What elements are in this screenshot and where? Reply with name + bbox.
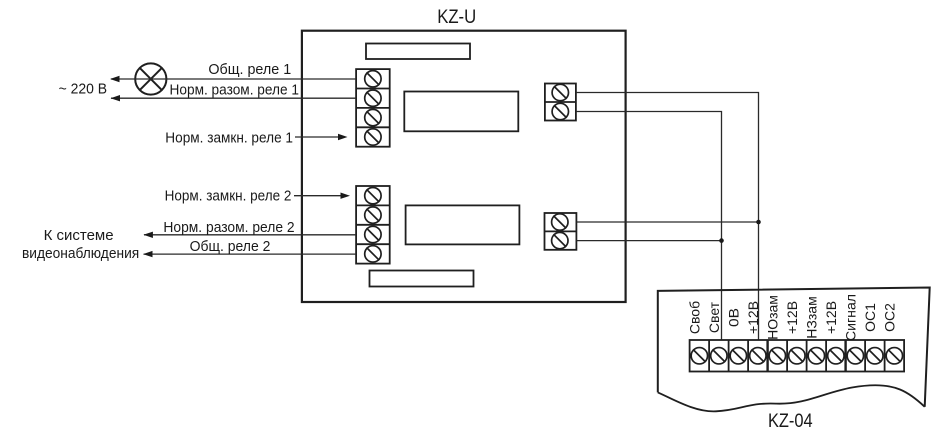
svg-text:Свет: Свет <box>706 301 722 333</box>
svg-text:К системе: К системе <box>44 227 114 244</box>
svg-text:Сигнал: Сигнал <box>842 294 858 341</box>
svg-text:Норм. разом. реле 2: Норм. разом. реле 2 <box>163 219 294 236</box>
svg-text:Норм. замкн. реле 1: Норм. замкн. реле 1 <box>165 130 293 147</box>
junction node A <box>756 220 761 225</box>
svg-text:Своб: Своб <box>686 301 702 334</box>
terminal block XT2 (relay 2 contacts, 4 screws) <box>356 186 390 264</box>
svg-text:KZ-04: KZ-04 <box>768 411 813 432</box>
wire: XT4 pin 1 to node A <box>576 221 758 223</box>
relay K2 <box>406 205 520 244</box>
svg-text:+12В: +12В <box>823 301 839 334</box>
KZ-U module box <box>302 31 626 302</box>
svg-text:видеонаблюдения: видеонаблюдения <box>22 245 139 262</box>
wire: XT3 pin 1 to KZ-04 +12В <box>576 93 759 341</box>
KZ-04 torn bottom edge <box>658 385 925 411</box>
svg-text:Норм. замкн. реле 2: Норм. замкн. реле 2 <box>165 188 292 205</box>
svg-text:KZ-U: KZ-U <box>437 7 476 28</box>
svg-text:~ 220 В: ~ 220 В <box>59 81 108 98</box>
junction node B <box>719 238 724 243</box>
KZ-04 module box (torn-edge outline) <box>658 288 930 407</box>
lamp HL1 <box>135 63 166 94</box>
svg-text:Норм. разом. реле 1: Норм. разом. реле 1 <box>170 81 300 98</box>
connector rectangle (top) <box>366 44 470 60</box>
svg-text:ОС2: ОС2 <box>881 303 897 332</box>
svg-text:ОС1: ОС1 <box>862 303 878 332</box>
wire: Общ. реле 1 (lamp to XT1 pin 1) <box>110 76 356 82</box>
svg-text:НОзам: НОзам <box>764 295 780 340</box>
wire: Норм. замкн. реле 1 (arrow into XT1 pin 4) <box>295 134 348 140</box>
svg-text:Общ. реле 2: Общ. реле 2 <box>190 238 271 255</box>
svg-text:+12В: +12В <box>745 301 761 334</box>
wire: Норм. разом. реле 1 (to XT1 pin 2) <box>111 95 357 101</box>
svg-text:НЗзам: НЗзам <box>803 296 819 338</box>
terminal block XT3 (right, relay 1 output, 2 screws) <box>545 84 576 121</box>
svg-text:0В: 0В <box>725 308 741 327</box>
wire: XT4 pin 2 to node B <box>576 240 721 242</box>
connector rectangle (bottom) <box>370 271 474 287</box>
wire: Норм. разом. реле 2 (to XT2 pin 3) <box>143 232 356 238</box>
wire: Норм. замкн. реле 2 (arrow into XT2 pin 1) <box>294 193 350 199</box>
KZ-04 terminal strip (11 screws) <box>690 340 905 372</box>
wire: Общ. реле 2 (to XT2 pin 4) <box>143 251 356 257</box>
wire: XT3 pin 2 to KZ-04 Свет <box>576 112 722 341</box>
terminal block XT4 (right, relay 2 output, 2 screws) <box>545 213 577 250</box>
relay K1 <box>404 92 518 132</box>
svg-text:Общ. реле 1: Общ. реле 1 <box>208 61 291 78</box>
terminal block XT1 (relay 1 contacts, 4 screws) <box>356 69 390 147</box>
label: К системе видеонаблюдения <box>22 227 139 262</box>
svg-text:+12В: +12В <box>784 301 800 334</box>
